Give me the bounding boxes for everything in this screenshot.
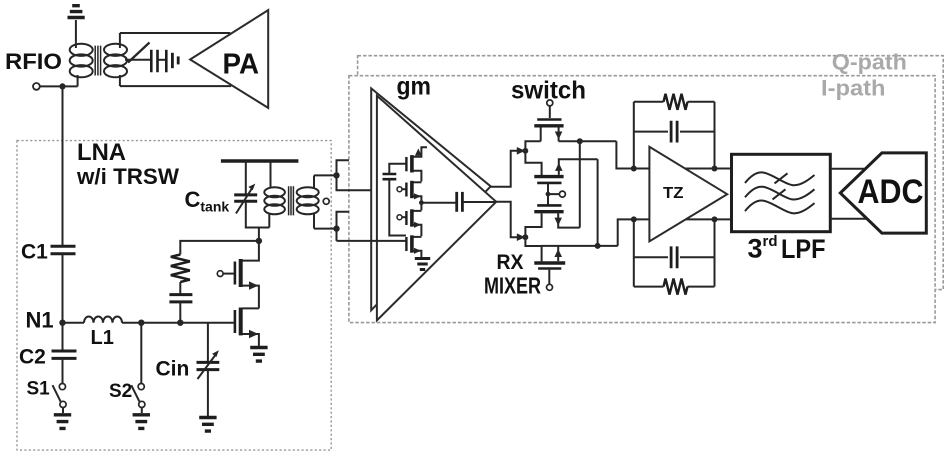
svg-text:L1: L1 xyxy=(91,327,114,349)
wire cap to tuning bars xyxy=(159,59,166,61)
wire LPF to ADC bottom xyxy=(830,218,867,220)
wire LO+ to M1 gate xyxy=(549,106,551,118)
svg-text:RX: RX xyxy=(497,251,524,274)
capacitor (PA coupling) xyxy=(151,50,157,73)
switch S1 xyxy=(53,384,67,408)
wire L1 to gate xyxy=(122,322,234,324)
wire gm Q output to mixer RF+ xyxy=(491,151,518,187)
wire out+ to Q-path xyxy=(337,160,349,175)
svg-text:C1: C1 xyxy=(21,241,48,264)
wire LO- to M4 gate stem xyxy=(548,270,550,285)
transistor M1 (top switch) xyxy=(534,120,563,142)
wire S1 to ground xyxy=(62,408,64,414)
svg-text:TZ: TZ xyxy=(663,185,684,202)
wire rail to T2 primary xyxy=(270,161,272,188)
inductor L1 xyxy=(84,317,122,323)
ground (top, above transformer primary) xyxy=(68,6,85,43)
svg-text:gm: gm xyxy=(397,73,432,101)
transistor gm T2 xyxy=(397,181,421,211)
LPF wave symbol xyxy=(745,172,815,213)
node N1 xyxy=(59,320,65,326)
node TZ in- xyxy=(631,216,637,222)
wire resistor to capacitor xyxy=(179,282,181,294)
transistor M1 input (lower) xyxy=(235,308,259,347)
I-path dashed box xyxy=(349,76,935,323)
LO- bottom terminal circle xyxy=(547,284,553,290)
node TZ in+ xyxy=(631,166,637,172)
capacitor gm input coupling xyxy=(383,164,407,236)
op-amp PA triangle xyxy=(190,10,268,108)
svg-text:Cin: Cin xyxy=(156,358,190,381)
svg-text:S1: S1 xyxy=(27,379,51,400)
svg-text:ADC: ADC xyxy=(858,173,924,211)
svg-text:C2: C2 xyxy=(19,346,46,369)
wire out- to Q-path xyxy=(337,212,349,229)
LO- terminal circle xyxy=(559,191,565,197)
wire rail IF B xyxy=(597,159,599,246)
capacitor C2 xyxy=(52,351,77,358)
Q-path dashed box xyxy=(358,56,944,290)
arrow RF- xyxy=(517,233,525,241)
wire into switch xyxy=(125,59,150,61)
transistor M2 cascode (upper) xyxy=(235,241,259,309)
wire gm input- through triangle xyxy=(337,240,407,242)
transformer T1 core xyxy=(95,46,100,76)
svg-text:w/i TRSW: w/i TRSW xyxy=(76,164,179,189)
op-amp gm triangle (Q-path copy, back) xyxy=(371,88,491,310)
capacitor Cbias xyxy=(169,295,192,302)
svg-text:LNA: LNA xyxy=(77,139,126,166)
wire S2 to ground xyxy=(141,408,143,414)
ground gm stack xyxy=(415,259,430,270)
feedback upper rails xyxy=(634,102,715,169)
transistor gm T1 xyxy=(406,147,427,181)
node at RFIO junction xyxy=(59,83,65,89)
svg-text:I-path: I-path xyxy=(821,76,886,101)
wire out- stub down xyxy=(336,229,338,241)
resistor Rbias xyxy=(171,255,190,283)
transformer T2 secondary coil xyxy=(297,175,319,228)
wire capacitor to N1 rail xyxy=(179,302,181,323)
ground below cascode xyxy=(250,348,267,362)
wire out+ to I-path gm xyxy=(337,175,372,190)
wire Cin tap down xyxy=(207,323,209,362)
LNA dashed box xyxy=(17,141,331,451)
wire N1 to L1 xyxy=(63,322,85,324)
svg-text:PA: PA xyxy=(223,49,260,81)
resistor Rf lower xyxy=(634,279,715,295)
ground below Cin xyxy=(199,418,216,432)
wire gm I output to mixer RF- xyxy=(496,202,518,237)
transistor gm T4 xyxy=(406,235,421,257)
arrow RF+ xyxy=(517,147,525,155)
transistor M3 (lower mid) xyxy=(525,205,579,261)
resistor Rf upper xyxy=(634,94,715,110)
node TZ out+ xyxy=(712,166,718,172)
capacitor C1 xyxy=(51,246,76,254)
feedback lower rails xyxy=(634,219,715,286)
wire C1 to N1 xyxy=(62,254,64,351)
ground below S1 xyxy=(54,415,71,429)
capacitor Cf upper xyxy=(634,121,715,143)
wire M1 source to left rail xyxy=(525,141,541,175)
switch S2 xyxy=(131,384,145,408)
wire rail to Ctank xyxy=(245,161,247,195)
wire M4 drain rail xyxy=(541,245,618,247)
wire C2 to S1 xyxy=(62,358,64,383)
tuning capacitor bars xyxy=(165,50,168,73)
transformer T2 primary coil xyxy=(264,187,285,227)
wire LPF to ADC top xyxy=(830,168,866,170)
node LO- stem xyxy=(546,192,551,197)
wire S2 tap down xyxy=(140,323,142,384)
node RF- entry xyxy=(523,234,529,240)
svg-text:N1: N1 xyxy=(26,308,54,333)
wire Ctank bottom xyxy=(246,201,269,227)
supply rail (thick bar) xyxy=(221,159,299,163)
svg-text:LPF: LPF xyxy=(781,234,826,264)
svg-text:rd: rd xyxy=(763,233,778,250)
RFIO terminal circle xyxy=(33,83,40,90)
center tap terminal of T2 xyxy=(323,198,329,204)
transformer T2 core xyxy=(289,186,294,215)
transistor M2 (upper mid) xyxy=(534,159,597,183)
transformer T1 primary coil xyxy=(70,43,93,87)
capacitor Cf lower xyxy=(634,246,715,268)
wire transformer bottom to drain node xyxy=(258,228,260,241)
block ADC pentagon xyxy=(840,153,926,233)
node LNA out- xyxy=(333,225,339,231)
wire T2 secondary top to node xyxy=(314,174,337,176)
capacitor gm output xyxy=(457,192,463,212)
block LPF box xyxy=(732,154,831,231)
wire gm output tap xyxy=(421,202,456,204)
node TZ out- xyxy=(712,216,718,222)
node resistor tap xyxy=(177,320,183,326)
node LNA out+ xyxy=(333,172,339,178)
wire RFIO terminal to node xyxy=(40,85,78,87)
transformer T1 secondary coil xyxy=(104,33,127,86)
wire T2 secondary bottom to node xyxy=(314,228,337,230)
wire gm out to apex xyxy=(464,201,497,203)
svg-text:MIXER: MIXER xyxy=(484,273,541,299)
LO+ terminal circle xyxy=(547,100,553,106)
node IF A top xyxy=(577,138,583,144)
wire IF B to TZ bottom input xyxy=(618,219,732,246)
wire PA loop rectangle xyxy=(120,33,231,86)
op-amp gm triangle (I-path, front) xyxy=(377,96,496,321)
svg-text:Q-path: Q-path xyxy=(832,50,907,75)
svg-text:S2: S2 xyxy=(109,381,132,402)
variable capacitor Cin xyxy=(197,350,220,379)
node IF B bottom xyxy=(595,243,601,249)
transistor gm T3 xyxy=(397,209,421,236)
node gm output tap xyxy=(419,200,424,205)
node S2 tap xyxy=(138,320,144,326)
node RF+ entry xyxy=(523,148,529,154)
node drain junction xyxy=(256,238,262,244)
wire bias to cascode gate xyxy=(223,273,234,275)
transistor M4 (bottom switch) xyxy=(534,246,565,269)
wire rail IF A xyxy=(579,141,581,227)
wire Cin to ground xyxy=(207,370,209,416)
wire drain node to resistor xyxy=(180,241,259,255)
variable capacitor Ctank xyxy=(234,184,257,214)
switch (PA input) xyxy=(128,43,150,63)
svg-text:RFIO: RFIO xyxy=(5,49,62,74)
bias terminal circle (cascode gate) xyxy=(217,271,223,277)
wire node down into LNA box xyxy=(62,86,64,246)
ground below S2 xyxy=(133,415,150,429)
svg-text:3: 3 xyxy=(748,234,763,264)
wire LO- stem xyxy=(548,184,560,205)
wire M1 drain to right rail xyxy=(559,140,617,142)
op-amp TZ triangle xyxy=(649,147,727,242)
wire IF A to TZ top input xyxy=(616,141,731,168)
